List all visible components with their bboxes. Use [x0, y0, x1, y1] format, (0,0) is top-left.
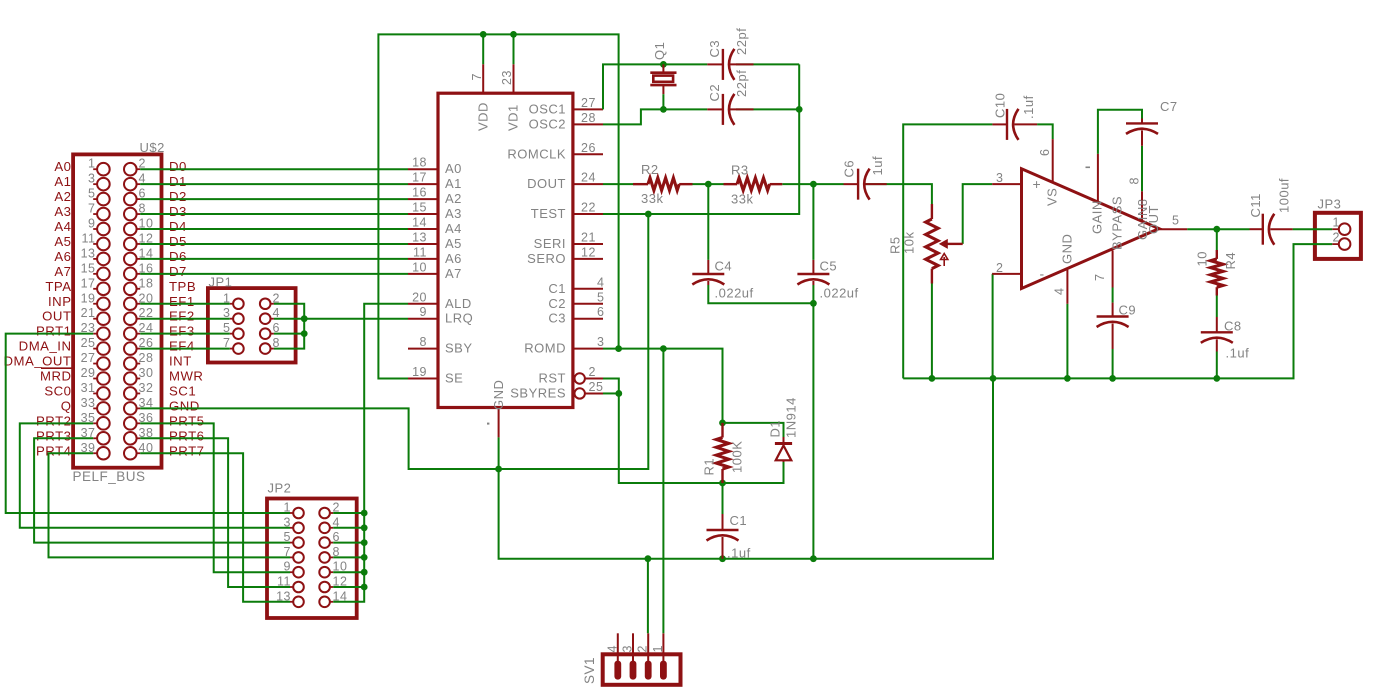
- svg-text:C3: C3: [548, 311, 566, 326]
- svg-text:12: 12: [581, 245, 596, 259]
- svg-text:SERO: SERO: [527, 251, 566, 266]
- svg-text:DMA_IN: DMA_IN: [19, 339, 72, 354]
- connector JP2: [267, 499, 357, 619]
- svg-text:SERI: SERI: [534, 236, 566, 251]
- JP1 pin numbers: [223, 291, 280, 350]
- svg-text:PRT6: PRT6: [169, 428, 204, 443]
- wire EF3: [140, 333, 230, 335]
- connector JP3: [1315, 213, 1361, 259]
- svg-text:OSC2: OSC2: [529, 116, 566, 131]
- svg-text:25: 25: [81, 336, 96, 350]
- wire C6 to R5: [866, 184, 932, 204]
- wire C9 bottom: [1112, 349, 1114, 378]
- capacitor C6: [844, 169, 887, 200]
- svg-text:VS: VS: [1045, 188, 1060, 206]
- wire EF4: [140, 348, 230, 350]
- svg-text:15: 15: [412, 201, 427, 215]
- svg-text:A2: A2: [54, 189, 71, 204]
- wire R5 wiper to opamp: [963, 184, 993, 244]
- svg-text:11: 11: [82, 231, 96, 245]
- svg-text:.1uf: .1uf: [1021, 95, 1036, 119]
- svg-text:1uf: 1uf: [870, 156, 885, 176]
- svg-text:D5: D5: [169, 234, 187, 249]
- wire pin4 gnd: [1066, 304, 1068, 379]
- svg-text:100uf: 100uf: [1277, 178, 1292, 213]
- svg-text:100K: 100K: [730, 441, 745, 473]
- svg-text:EF1: EF1: [169, 294, 195, 309]
- JP2 pin numbers: [276, 501, 347, 604]
- svg-text:9: 9: [88, 217, 95, 231]
- svg-text:A1: A1: [445, 176, 462, 191]
- svg-text:D3: D3: [169, 204, 187, 219]
- svg-text:SC1: SC1: [169, 383, 196, 398]
- svg-text:13: 13: [412, 230, 427, 244]
- svg-text:21: 21: [81, 306, 96, 320]
- svg-text:27: 27: [81, 351, 96, 365]
- svg-text:MRD: MRD: [40, 369, 72, 384]
- svg-text:21: 21: [581, 230, 596, 244]
- net label MRD: [40, 368, 72, 383]
- svg-text:U$2: U$2: [140, 140, 165, 155]
- svg-text:6: 6: [597, 305, 604, 319]
- IC U1 right pin names: [507, 101, 566, 355]
- svg-text:JP3: JP3: [1318, 197, 1342, 212]
- junction: [719, 420, 726, 427]
- capacitor C3: [707, 49, 753, 80]
- junction: [705, 181, 712, 188]
- svg-text:BYPASS: BYPASS: [1110, 196, 1125, 250]
- svg-text:EF3: EF3: [169, 324, 195, 339]
- svg-text:C1: C1: [730, 513, 748, 528]
- wire ROMD net: [603, 349, 723, 423]
- IC U1 box: [438, 93, 573, 407]
- SV1 pin numbers: [605, 645, 665, 652]
- svg-text:D6: D6: [169, 249, 187, 264]
- svg-text:D2: D2: [169, 189, 187, 204]
- svg-text:D1: D1: [169, 174, 187, 189]
- svg-text:1: 1: [88, 157, 95, 171]
- svg-text:18: 18: [412, 156, 427, 170]
- svg-text:23: 23: [500, 70, 514, 85]
- svg-text:C9: C9: [1119, 303, 1137, 318]
- svg-text:10: 10: [412, 260, 427, 274]
- svg-text:22pf: 22pf: [734, 28, 749, 55]
- svg-text:SV1: SV1: [582, 657, 597, 684]
- svg-text:SE: SE: [445, 371, 463, 386]
- svg-text:C10: C10: [993, 93, 1008, 118]
- wire EF1: [140, 303, 230, 305]
- svg-text:3: 3: [597, 335, 604, 349]
- wire C10 loop: [903, 124, 992, 378]
- svg-text:D0: D0: [169, 159, 187, 174]
- junction: [1109, 375, 1116, 382]
- wire PRT3: [34, 438, 290, 542]
- capacitor C5: [797, 260, 829, 285]
- junction: [810, 300, 817, 307]
- IC U1 left pin names: [445, 161, 473, 385]
- connector JP1: [208, 288, 296, 362]
- junction: [1213, 375, 1220, 382]
- svg-text:ROMCLK: ROMCLK: [507, 146, 566, 161]
- junction: [361, 569, 368, 576]
- junction: [495, 466, 502, 473]
- svg-text:10: 10: [1195, 251, 1210, 266]
- svg-text:RST: RST: [539, 371, 567, 386]
- svg-text:.022uf: .022uf: [820, 286, 859, 301]
- svg-text:TPA: TPA: [45, 279, 71, 294]
- svg-text:15: 15: [81, 261, 96, 275]
- svg-text:A5: A5: [54, 234, 71, 249]
- potentiometer R5: [926, 204, 963, 284]
- wire VDD net: [378, 34, 618, 378]
- wire D7: [140, 273, 408, 275]
- svg-text:6: 6: [1038, 149, 1052, 156]
- svg-text:19: 19: [412, 365, 427, 379]
- svg-text:C11: C11: [1248, 193, 1263, 217]
- opamp pin names: [1033, 176, 1162, 282]
- junction: [361, 584, 368, 591]
- svg-text:R5: R5: [888, 236, 903, 254]
- svg-text:2: 2: [996, 261, 1003, 275]
- wire DOUT: [603, 183, 633, 185]
- svg-text:R2: R2: [641, 162, 659, 177]
- stray mark: [487, 423, 489, 425]
- svg-text:8: 8: [1128, 177, 1142, 184]
- wire C7 to pin8: [1141, 146, 1143, 192]
- svg-text:PRT7: PRT7: [169, 443, 204, 458]
- wire C2 right: [736, 108, 799, 110]
- svg-text:4: 4: [605, 645, 619, 652]
- svg-text:.1uf: .1uf: [727, 546, 751, 561]
- svg-text:EF4: EF4: [169, 339, 195, 354]
- capacitor C7: [1126, 119, 1158, 146]
- svg-text:PELF_BUS: PELF_BUS: [73, 469, 146, 484]
- junction: [1213, 226, 1220, 233]
- svg-text:11: 11: [413, 245, 427, 259]
- svg-text:R1: R1: [702, 458, 717, 476]
- junction: [615, 345, 622, 352]
- junction: [645, 555, 652, 562]
- svg-text:C5: C5: [820, 259, 838, 274]
- svg-text:33k: 33k: [641, 191, 663, 206]
- svg-text:C8: C8: [1224, 319, 1242, 334]
- svg-text:1N914: 1N914: [784, 397, 799, 438]
- svg-text:19: 19: [81, 291, 96, 305]
- svg-text:C7: C7: [1160, 99, 1178, 114]
- junction: [1064, 375, 1071, 382]
- connector SV1: [603, 633, 681, 685]
- junction: [510, 31, 517, 38]
- svg-text:17: 17: [412, 171, 427, 185]
- svg-text:C1: C1: [548, 281, 566, 296]
- resistor R2: [633, 178, 693, 190]
- wire ALD / JP2 common: [333, 304, 408, 602]
- svg-text:28: 28: [581, 111, 596, 125]
- wire to C5: [812, 184, 814, 260]
- wire C4/C5 bottom: [708, 285, 813, 303]
- wire D2: [140, 198, 408, 200]
- svg-text:31: 31: [81, 381, 96, 395]
- wire GND to SV1: [647, 559, 649, 634]
- wire D0: [140, 168, 408, 170]
- IC U1 left pin numbers: [412, 156, 427, 379]
- svg-text:A7: A7: [445, 266, 462, 281]
- capacitor C2: [707, 94, 753, 125]
- IC U1 pin RST (2): [539, 365, 604, 386]
- svg-text:GND: GND: [491, 380, 506, 410]
- svg-text:D4: D4: [169, 219, 187, 234]
- junction: [719, 555, 726, 562]
- svg-text:16: 16: [412, 186, 427, 200]
- IC U1 pin VDD (7): [470, 64, 491, 131]
- U$2 pin numbers: [81, 157, 154, 455]
- capacitor C8: [1201, 317, 1233, 352]
- wire PRT1: [6, 334, 290, 513]
- svg-text:1: 1: [1333, 216, 1340, 230]
- wire RST net: [603, 379, 723, 484]
- wire EF2: [140, 318, 230, 320]
- capacitor C11: [1250, 214, 1293, 245]
- opamp pins: [992, 139, 1187, 304]
- junction: [361, 554, 368, 561]
- svg-text:Q: Q: [61, 398, 72, 413]
- svg-text:TEST: TEST: [531, 206, 566, 221]
- wire R5 bottom: [931, 284, 933, 379]
- svg-text:A6: A6: [445, 251, 462, 266]
- svg-text:JP1: JP1: [209, 275, 233, 290]
- IC U1 right pin numbers: [581, 96, 604, 349]
- svg-text:4: 4: [1053, 288, 1067, 295]
- svg-text:3: 3: [88, 172, 95, 186]
- svg-text:10k: 10k: [902, 232, 917, 254]
- wire pin7 to C9: [1112, 288, 1114, 303]
- svg-text:3: 3: [621, 645, 635, 652]
- wire D3: [140, 213, 408, 215]
- crystal Q1: [650, 64, 676, 94]
- svg-text:C6: C6: [842, 160, 857, 178]
- svg-text:C2: C2: [548, 296, 566, 311]
- svg-text:Q1: Q1: [652, 42, 667, 60]
- svg-text:A0: A0: [54, 159, 71, 174]
- svg-text:28: 28: [139, 351, 154, 365]
- wire C3 right: [736, 63, 799, 65]
- svg-text:PRT3: PRT3: [36, 428, 71, 443]
- junction: [301, 330, 308, 337]
- wire OSC1 net: [603, 64, 707, 109]
- svg-text:26: 26: [581, 141, 596, 155]
- wire OUT net: [1187, 228, 1249, 230]
- wire R4 top: [1216, 229, 1218, 250]
- svg-text:GAIN8: GAIN8: [1135, 198, 1150, 240]
- svg-text:PRT2: PRT2: [36, 413, 71, 428]
- wire D5: [140, 243, 408, 245]
- svg-text:A4: A4: [445, 221, 462, 236]
- svg-text:VDD: VDD: [476, 102, 491, 131]
- junction: [810, 555, 817, 562]
- svg-text:TPB: TPB: [169, 279, 196, 294]
- svg-text:20: 20: [412, 290, 427, 304]
- wire PRT2: [20, 423, 290, 527]
- wire PRT4: [49, 453, 291, 557]
- svg-text:A3: A3: [54, 204, 71, 219]
- IC U1 pin SBYRES (25): [510, 380, 603, 401]
- junction: [810, 181, 817, 188]
- junction: [929, 375, 936, 382]
- connector U$2 PELF_BUS: [73, 154, 161, 467]
- wire OSC2 net: [603, 109, 707, 124]
- svg-text:A7: A7: [54, 264, 71, 279]
- wire opamp pin2: [992, 274, 994, 379]
- junction: [660, 345, 667, 352]
- svg-text:A5: A5: [445, 236, 462, 251]
- IC U1 pin GND (bottom): [491, 380, 506, 438]
- svg-text:2: 2: [1333, 230, 1340, 244]
- wire R2-R3 node: [693, 183, 724, 185]
- svg-text:VD1: VD1: [506, 104, 521, 131]
- wire GND amp rail: [903, 244, 1332, 378]
- wire GND rail (C1): [499, 378, 993, 558]
- junction: [660, 106, 667, 113]
- svg-text:EF2: EF2: [169, 309, 195, 324]
- svg-text:27: 27: [581, 96, 596, 110]
- capacitor C4: [692, 260, 724, 285]
- junction: [660, 61, 667, 68]
- svg-text:A4: A4: [54, 219, 71, 234]
- svg-text:A6: A6: [54, 249, 71, 264]
- wire D4: [140, 228, 408, 230]
- svg-text:7: 7: [88, 202, 95, 216]
- svg-text:INT: INT: [169, 354, 192, 369]
- svg-text:OSC1: OSC1: [529, 101, 566, 116]
- opamp pin1 number mark: [1086, 166, 1091, 168]
- svg-text:5: 5: [88, 187, 95, 201]
- junction: [796, 106, 803, 113]
- svg-text:R4: R4: [1223, 252, 1238, 270]
- svg-text:SBY: SBY: [445, 341, 473, 356]
- svg-text:SC0: SC0: [44, 383, 71, 398]
- JP3 pin numbers: [1333, 216, 1340, 245]
- IC U1 right pins: [573, 109, 603, 348]
- opamp pin numbers: [996, 149, 1179, 295]
- svg-text:3: 3: [996, 171, 1003, 185]
- junction: [645, 211, 652, 218]
- svg-text:MWR: MWR: [169, 369, 203, 384]
- svg-text:+: +: [1033, 176, 1042, 192]
- wire C11 to JP3: [1293, 228, 1333, 230]
- svg-text:A3: A3: [445, 206, 462, 221]
- svg-text:5: 5: [597, 290, 604, 304]
- svg-text:A1: A1: [54, 174, 71, 189]
- svg-text:GND: GND: [169, 398, 200, 413]
- wire to C4: [707, 184, 709, 260]
- wire PRT6: [140, 438, 290, 587]
- svg-text:PRT5: PRT5: [169, 413, 204, 428]
- wire R1/D1 bottom: [723, 462, 784, 483]
- svg-text:D1: D1: [768, 420, 783, 438]
- svg-text:D7: D7: [169, 264, 187, 279]
- IC U1 left pins: [408, 169, 438, 378]
- svg-text:ROMD: ROMD: [524, 341, 566, 356]
- opamp U2 LM386: [1022, 169, 1160, 289]
- wire D6: [140, 258, 408, 260]
- svg-text:7: 7: [1093, 274, 1107, 281]
- svg-text:PRT1: PRT1: [36, 324, 71, 339]
- wire LRQ / JP1 common: [274, 304, 304, 349]
- svg-text:13: 13: [81, 246, 96, 260]
- diode D1: [775, 437, 792, 462]
- resistor R4: [1211, 250, 1223, 296]
- svg-text:R3: R3: [731, 163, 749, 178]
- svg-text:14: 14: [412, 216, 427, 230]
- svg-text:A2: A2: [445, 191, 462, 206]
- svg-text:8: 8: [420, 335, 427, 349]
- svg-text:2: 2: [636, 645, 650, 652]
- svg-text:INP: INP: [48, 294, 71, 309]
- svg-text:7: 7: [470, 73, 484, 80]
- svg-text:OUT: OUT: [42, 309, 71, 324]
- svg-text:25: 25: [589, 380, 604, 394]
- svg-text:ALD: ALD: [445, 296, 472, 311]
- wire PRT7: [140, 453, 290, 602]
- capacitor C1: [707, 514, 739, 559]
- svg-text:DOUT: DOUT: [527, 176, 566, 191]
- svg-text:33k: 33k: [731, 192, 753, 207]
- junction: [361, 510, 368, 517]
- junction: [301, 315, 308, 322]
- wire D1: [140, 183, 408, 185]
- IC U1 pin VD1 (23): [500, 64, 521, 131]
- wire C8 bottom: [1216, 352, 1218, 379]
- svg-text:22: 22: [581, 201, 596, 215]
- svg-text:-: -: [1040, 266, 1045, 282]
- svg-text:PRT4: PRT4: [36, 443, 71, 458]
- svg-text:SBYRES: SBYRES: [510, 385, 566, 400]
- svg-text:GND: GND: [1060, 234, 1075, 264]
- svg-text:C2: C2: [707, 84, 722, 102]
- svg-text:1: 1: [651, 645, 665, 652]
- svg-text:24: 24: [581, 171, 596, 185]
- svg-text:5: 5: [1172, 214, 1179, 228]
- junction: [480, 31, 487, 38]
- junction: [615, 390, 622, 397]
- svg-text:4: 4: [597, 275, 604, 289]
- junction: [990, 375, 997, 382]
- svg-text:2: 2: [589, 365, 596, 379]
- junction: [361, 524, 368, 531]
- resistor R1: [716, 423, 728, 483]
- svg-text:DMA_OUT: DMA_OUT: [4, 354, 72, 369]
- svg-text:.022uf: .022uf: [715, 286, 754, 301]
- svg-text:GAIN: GAIN: [1090, 200, 1105, 234]
- capacitor C10: [992, 109, 1037, 140]
- resistor R3: [724, 178, 783, 190]
- svg-text:30: 30: [139, 366, 154, 380]
- svg-text:.1uf: .1uf: [1226, 346, 1250, 361]
- svg-text:C4: C4: [715, 259, 733, 274]
- wire R4-C8: [1216, 296, 1218, 318]
- svg-text:29: 29: [81, 366, 96, 380]
- svg-text:A0: A0: [445, 161, 462, 176]
- svg-text:32: 32: [139, 381, 154, 395]
- svg-text:18: 18: [139, 276, 154, 290]
- junction: [719, 480, 726, 487]
- svg-text:JP2: JP2: [268, 481, 292, 496]
- svg-text:17: 17: [81, 276, 96, 290]
- wire pin1-C7 loop: [1098, 110, 1142, 154]
- capacitor C9: [1097, 303, 1129, 349]
- wire GND net: [140, 214, 648, 469]
- wire PRT5: [140, 423, 290, 572]
